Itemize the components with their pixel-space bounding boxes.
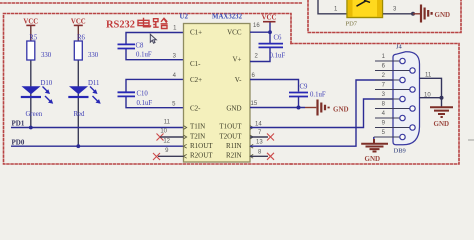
svg-text:T1IN: T1IN (190, 123, 205, 131)
junction pin16/VCC/C6 (268, 30, 272, 34)
svg-text:0.1uF: 0.1uF (137, 100, 153, 107)
DB9 section dashed box (291, 44, 459, 165)
svg-text:C9: C9 (300, 84, 309, 91)
svg-text:J4: J4 (396, 44, 403, 51)
svg-text:C1-: C1- (190, 60, 201, 68)
junction D11 on PD0 (76, 144, 80, 148)
mouse cursor (150, 34, 156, 43)
wire C9 bottom to GND net (298, 97, 300, 108)
pin 6 (375, 70, 410, 72)
svg-text:15: 15 (251, 101, 258, 107)
svg-text:16: 16 (253, 23, 260, 29)
junction D10 on PD1 (29, 126, 33, 130)
junction shield wires (440, 96, 444, 100)
svg-text:0.1uF: 0.1uF (270, 53, 286, 60)
PD7 section dashed box (308, 0, 461, 33)
svg-text:0.1uF: 0.1uF (310, 92, 326, 99)
svg-text:U2: U2 (180, 13, 189, 21)
ground symbol (bar style) for PD7 (421, 5, 432, 23)
svg-text:R1OUT: R1OUT (190, 142, 213, 150)
wire T1OUT pin14 to DB9 pin3 (250, 99, 400, 128)
svg-text:C1+: C1+ (190, 29, 202, 37)
pin numbers right (251, 23, 264, 156)
dashed border of off-screen box above (0, 2, 302, 4)
hanzi lu (circuit) (153, 18, 167, 28)
svg-text:R6: R6 (77, 35, 86, 42)
svg-text:R2IN: R2IN (226, 152, 242, 160)
svg-text:PD1: PD1 (12, 120, 25, 128)
DB9 pin numbers (382, 54, 386, 136)
svg-text:14: 14 (255, 122, 262, 128)
svg-text:0.1uF: 0.1uF (136, 52, 152, 59)
pin 4 (375, 117, 400, 119)
wire stub pin 9 (158, 155, 184, 157)
switch PD7 right wire (383, 13, 412, 15)
pin 5 (374, 136, 400, 138)
svg-text:11: 11 (425, 73, 432, 79)
svg-text:330: 330 (88, 52, 99, 59)
wire R1IN pin13 to DB9 pin2 (250, 80, 400, 146)
power flag VCC (left, for R5) (26, 24, 35, 26)
resistor R5 (27, 41, 35, 60)
svg-text:C8: C8 (136, 43, 145, 50)
wire stub pin 7 with no-connect X (250, 136, 268, 138)
svg-text:VCC: VCC (23, 18, 38, 25)
wire R6 column VCC to PD0 line (77, 25, 79, 41)
svg-text:T2IN: T2IN (190, 133, 205, 141)
junction C9 on GND wire (297, 106, 301, 110)
svg-text:V+: V+ (232, 56, 241, 64)
IC U2 MAX3232 body (184, 24, 251, 163)
junction at PD7 ground (411, 12, 415, 16)
svg-text:11: 11 (164, 120, 171, 126)
switch PD7 left wire (318, 0, 347, 14)
svg-text:PD0: PD0 (12, 139, 25, 147)
LED D11 (68, 80, 100, 118)
pin 8 (375, 108, 410, 110)
no-connect X on pin 10 (157, 134, 164, 141)
svg-text:C2-: C2- (190, 105, 201, 113)
LED D10 (21, 80, 53, 118)
svg-text:D11: D11 (88, 80, 99, 87)
ground symbol (bar style) at pin 15 (318, 100, 329, 116)
wire stub pin 8 with no-connect X (250, 155, 268, 157)
svg-text:GND: GND (226, 105, 241, 113)
svg-text:Red: Red (74, 111, 86, 118)
capacitor C9 (289, 93, 308, 97)
svg-text:GND: GND (435, 11, 451, 19)
ground symbol (earth style) at DB9 shield (430, 107, 453, 117)
wire C2+ loop with capacitor C10 (126, 79, 184, 107)
svg-text:10: 10 (160, 129, 167, 135)
svg-text:D10: D10 (41, 80, 53, 87)
switch PD7 body (346, 0, 383, 28)
power flag VCC (second, for R6) (74, 24, 83, 26)
wire V- pin6 to capacitor C9 (250, 80, 299, 92)
resistor R6 (74, 41, 82, 60)
pin decoration arrows on chip edge (184, 126, 254, 159)
pin 2 (375, 79, 400, 81)
svg-text:GND: GND (434, 120, 450, 128)
capacitor C8 (118, 44, 136, 48)
chip pin names right (219, 29, 242, 160)
capacitor C6 (259, 44, 284, 48)
svg-text:13: 13 (256, 140, 263, 146)
pin 1 (375, 60, 400, 62)
ground symbol (earth style) at DB9 pin5 (361, 139, 388, 152)
wire VCC pin16 and capacitor C6 top (250, 23, 270, 44)
pin numbers left (160, 26, 177, 155)
svg-text:V-: V- (235, 76, 242, 84)
svg-text:R2OUT: R2OUT (190, 152, 213, 160)
no-connect X on pin 9 (153, 153, 160, 160)
svg-text:VCC: VCC (71, 18, 86, 25)
wire DB9 pin5 to ground (373, 137, 375, 140)
svg-text:RS232: RS232 (106, 19, 135, 31)
svg-text:MAX3232: MAX3232 (212, 13, 242, 21)
DB9 pin stubs (374, 61, 410, 137)
wire C1+ loop with capacitor C8 (126, 33, 184, 60)
hanzi dian (electric) (138, 18, 151, 27)
svg-text:VCC: VCC (227, 29, 242, 37)
wire PD0 to R1OUT (11, 145, 184, 147)
DB9 pin holes (400, 58, 415, 139)
svg-text:C6: C6 (274, 35, 283, 42)
pin 9 (375, 127, 410, 129)
svg-text:T2OUT: T2OUT (219, 133, 242, 141)
svg-text:PD7: PD7 (346, 21, 358, 28)
pin 7 (375, 89, 410, 91)
wire PD1 to T1IN (11, 127, 184, 129)
svg-text:GND: GND (365, 155, 381, 163)
svg-text:Green: Green (26, 111, 43, 118)
svg-text:T1OUT: T1OUT (219, 123, 242, 131)
svg-text:GND: GND (333, 106, 349, 114)
svg-text:VCC: VCC (262, 15, 277, 22)
wire R5 column VCC to PD1 line (30, 25, 32, 41)
svg-text:330: 330 (41, 52, 52, 59)
svg-text:C2+: C2+ (190, 76, 202, 84)
RS232 circuit dashed box (4, 14, 292, 165)
stray mark right edge (468, 139, 474, 141)
svg-text:DB9: DB9 (394, 148, 406, 155)
chip pin names left (190, 29, 213, 160)
wire C6 bottom to V+ pin2 (250, 48, 270, 62)
svg-text:C10: C10 (137, 91, 149, 98)
wire GND pin15 (250, 107, 305, 109)
capacitor C10 (118, 92, 136, 96)
svg-text:R5: R5 (29, 35, 38, 42)
svg-text:R1IN: R1IN (226, 142, 242, 150)
pin 3 (375, 98, 400, 100)
wire stub pin 10 (160, 136, 184, 138)
power flag VCC (right of chip) (263, 21, 276, 23)
svg-text:12: 12 (163, 139, 170, 145)
